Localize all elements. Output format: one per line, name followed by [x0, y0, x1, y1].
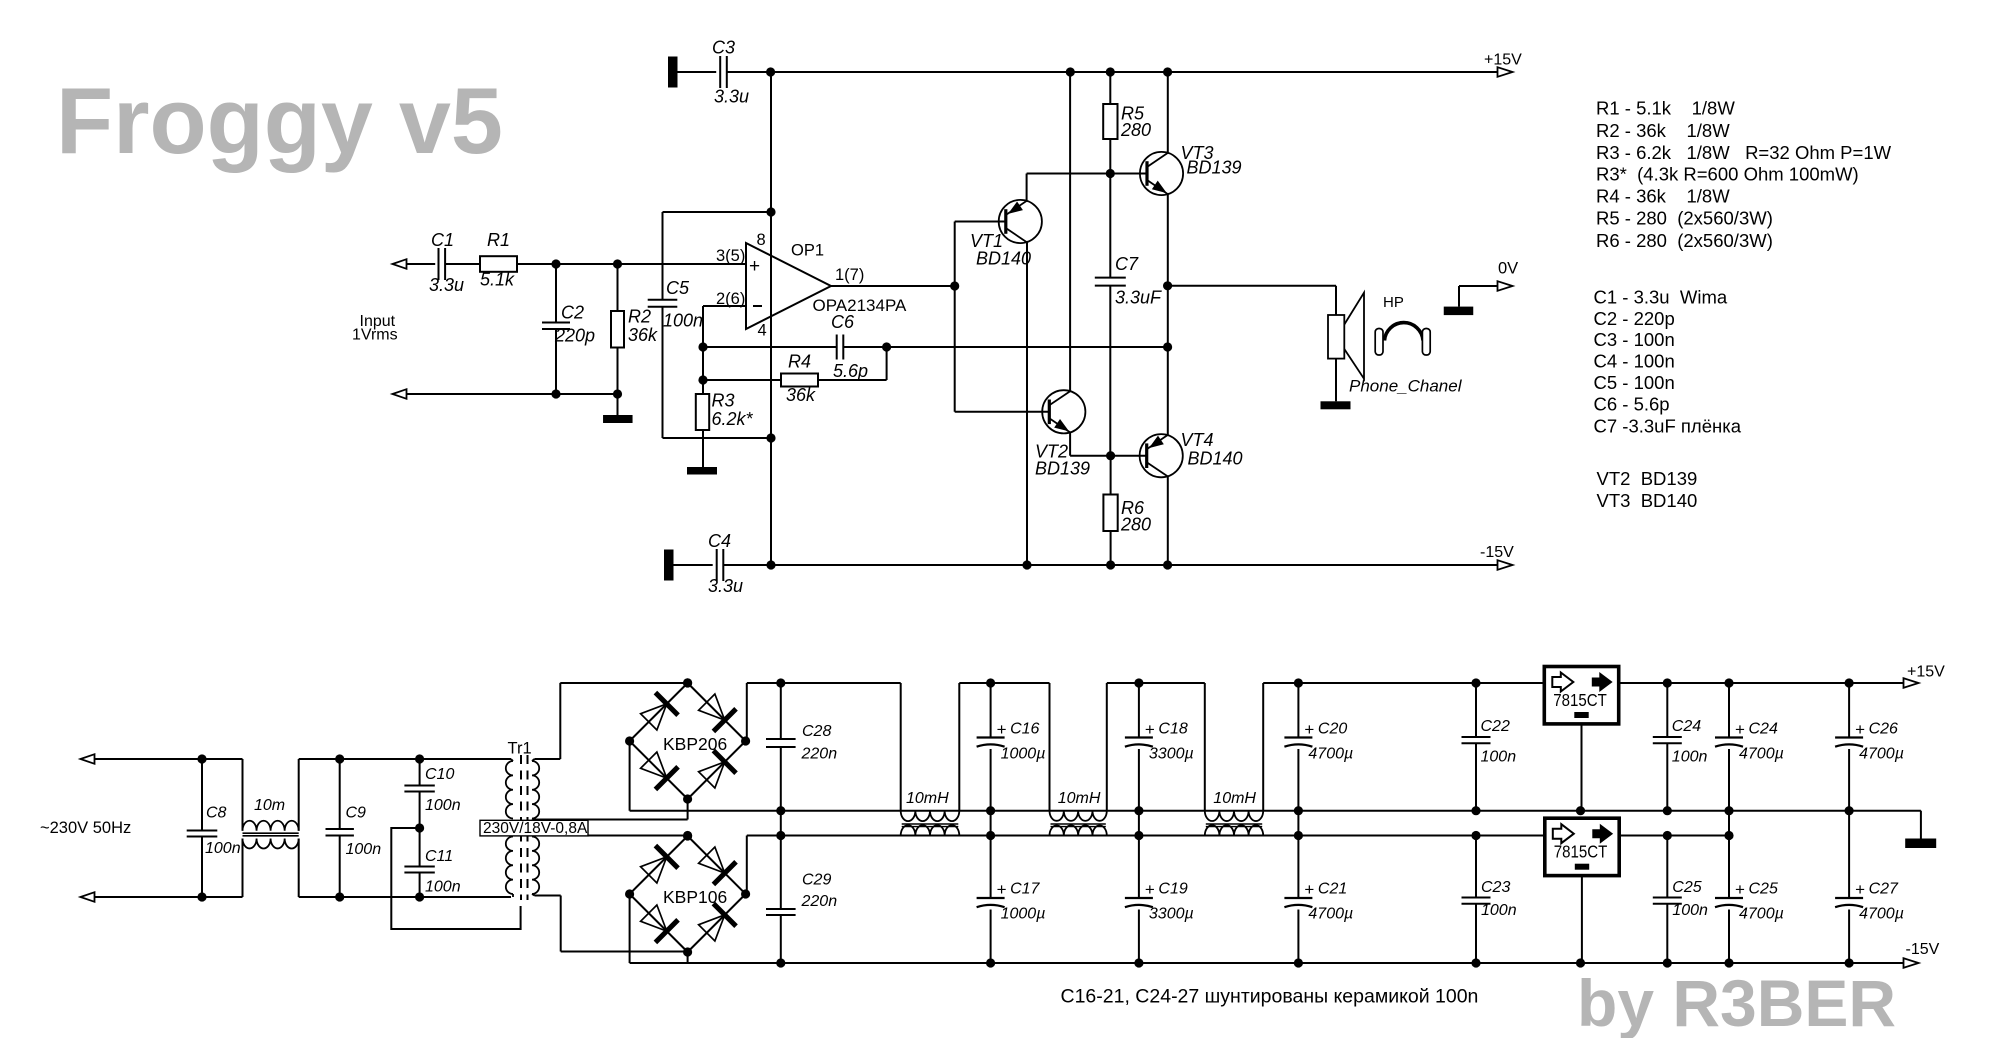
svg-text:100n: 100n [1672, 902, 1708, 919]
svg-text:C6: C6 [831, 312, 855, 332]
svg-text:10m: 10m [254, 797, 285, 814]
svg-text:C2: C2 [561, 303, 584, 323]
svg-text:100n: 100n [346, 841, 382, 858]
svg-text:C3 - 100n: C3 - 100n [1594, 329, 1675, 350]
svg-text:R1: R1 [487, 230, 510, 250]
svg-text:0V: 0V [1498, 260, 1518, 278]
svg-text:+: + [997, 880, 1007, 899]
svg-text:C9: C9 [346, 805, 367, 822]
svg-text:10mH: 10mH [1213, 790, 1256, 807]
svg-text:R1 - 5.1k 1/8W: R1 - 5.1k 1/8W [1596, 98, 1735, 119]
svg-text:C20: C20 [1318, 721, 1347, 738]
svg-text:Froggy v5: Froggy v5 [56, 68, 503, 173]
svg-text:C16-21, C24-27 шунтированы кер: C16-21, C24-27 шунтированы керамикой 100… [1061, 986, 1479, 1008]
svg-text:C22: C22 [1481, 718, 1510, 735]
svg-text:C24: C24 [1749, 721, 1778, 738]
svg-text:C16: C16 [1010, 721, 1039, 738]
svg-text:VT3 BD140: VT3 BD140 [1597, 490, 1698, 511]
svg-text:C23: C23 [1481, 879, 1510, 896]
svg-text:+: + [1145, 720, 1155, 739]
svg-text:C21: C21 [1318, 881, 1347, 898]
svg-text:10mH: 10mH [906, 790, 949, 807]
svg-text:C3: C3 [712, 38, 735, 58]
svg-text:C8: C8 [206, 805, 227, 822]
svg-text:HP: HP [1383, 294, 1404, 311]
svg-text:C25: C25 [1672, 879, 1701, 896]
svg-text:C7: C7 [1115, 254, 1139, 274]
svg-text:by R3BER: by R3BER [1577, 966, 1896, 1038]
svg-text:C4 - 100n: C4 - 100n [1594, 350, 1675, 371]
svg-text:100n: 100n [205, 840, 241, 857]
svg-text:BD140: BD140 [1188, 449, 1243, 469]
svg-text:3300µ: 3300µ [1149, 906, 1194, 923]
svg-text:OP1: OP1 [791, 242, 824, 260]
svg-text:C5: C5 [666, 278, 690, 298]
svg-text:R3* (4.3k R=600 Ohm 100mW): R3* (4.3k R=600 Ohm 100mW) [1596, 164, 1859, 185]
svg-text:R4 - 36k 1/8W: R4 - 36k 1/8W [1596, 185, 1730, 206]
svg-text:C24: C24 [1672, 718, 1701, 735]
svg-text:1Vrms: 1Vrms [352, 327, 398, 344]
svg-text:R4: R4 [788, 352, 811, 372]
svg-text:1000µ: 1000µ [1001, 746, 1046, 763]
svg-text:C1 - 3.3u Wima: C1 - 3.3u Wima [1594, 287, 1728, 308]
svg-text:4700µ: 4700µ [1739, 906, 1784, 923]
svg-text:36k: 36k [628, 325, 658, 345]
svg-text:100n: 100n [663, 311, 703, 331]
svg-text:3300µ: 3300µ [1149, 746, 1194, 763]
svg-text:6.2k*: 6.2k* [712, 409, 754, 429]
svg-text:5.1k: 5.1k [480, 270, 515, 290]
svg-text:+15V: +15V [1907, 664, 1945, 681]
svg-text:100n: 100n [1481, 749, 1517, 766]
svg-text:220p: 220p [554, 326, 595, 346]
svg-text:+: + [1304, 720, 1314, 739]
svg-text:C1: C1 [431, 230, 454, 250]
svg-text:OPA2134PA: OPA2134PA [813, 296, 908, 315]
svg-text:7815CT: 7815CT [1553, 690, 1607, 710]
svg-text:4700µ: 4700µ [1859, 906, 1904, 923]
svg-text:+: + [749, 256, 760, 277]
svg-text:3.3u: 3.3u [714, 87, 749, 107]
svg-text:+: + [1145, 880, 1155, 899]
svg-text:220n: 220n [801, 893, 838, 910]
svg-text:1(7): 1(7) [835, 266, 864, 284]
svg-text:Tr1: Tr1 [508, 740, 532, 758]
svg-text:+: + [1855, 720, 1865, 739]
svg-text:100n: 100n [1481, 902, 1517, 919]
svg-text:3.3u: 3.3u [708, 576, 743, 596]
svg-text:230V/18V-0,8A: 230V/18V-0,8A [483, 820, 588, 837]
svg-text:8: 8 [757, 231, 766, 249]
svg-text:3(5): 3(5) [716, 247, 745, 265]
svg-text:3.3uF: 3.3uF [1115, 288, 1162, 308]
svg-text:280: 280 [1120, 515, 1151, 535]
svg-text:C27: C27 [1869, 881, 1899, 898]
svg-text:C28: C28 [802, 723, 831, 740]
svg-text:C18: C18 [1158, 721, 1187, 738]
svg-text:+15V: +15V [1484, 52, 1522, 69]
svg-text:+: + [1735, 880, 1745, 899]
svg-text:KBP106: KBP106 [663, 887, 727, 907]
svg-text:C4: C4 [708, 531, 731, 551]
svg-text:C6 - 5.6p: C6 - 5.6p [1594, 394, 1670, 415]
svg-text:Phone_Chanel: Phone_Chanel [1349, 377, 1463, 396]
svg-text:C26: C26 [1869, 721, 1898, 738]
svg-text:100n: 100n [1672, 749, 1708, 766]
svg-text:C29: C29 [802, 872, 831, 889]
svg-text:-15V: -15V [1906, 941, 1940, 958]
svg-text:5.6p: 5.6p [833, 361, 868, 381]
svg-text:KBP206: KBP206 [663, 734, 727, 754]
svg-text:1000µ: 1000µ [1001, 906, 1046, 923]
svg-text:280: 280 [1120, 120, 1151, 140]
svg-text:+: + [997, 720, 1007, 739]
svg-text:7815CT: 7815CT [1554, 842, 1608, 862]
svg-text:C11: C11 [425, 848, 453, 865]
svg-text:+: + [1735, 720, 1745, 739]
svg-text:4700µ: 4700µ [1308, 746, 1353, 763]
svg-text:C10: C10 [425, 766, 454, 783]
svg-text:C5 - 100n: C5 - 100n [1594, 372, 1675, 393]
svg-text:C19: C19 [1158, 881, 1187, 898]
svg-text:R3 - 6.2k 1/8W R=32 Ohm P=: R3 - 6.2k 1/8W R=32 Ohm P=1W [1596, 142, 1892, 163]
svg-text:220n: 220n [801, 746, 838, 763]
svg-text:100n: 100n [425, 879, 461, 896]
svg-text:BD139: BD139 [1187, 158, 1242, 178]
svg-text:+: + [1855, 880, 1865, 899]
svg-text:100n: 100n [425, 797, 461, 814]
svg-text:36k: 36k [786, 385, 816, 405]
svg-text:4700µ: 4700µ [1308, 906, 1353, 923]
svg-text:R6 - 280 (2x560/3W): R6 - 280 (2x560/3W) [1596, 230, 1773, 251]
svg-text:+: + [1304, 880, 1314, 899]
svg-text:10mH: 10mH [1058, 790, 1101, 807]
svg-text:C25: C25 [1749, 881, 1778, 898]
svg-text:R2 - 36k 1/8W: R2 - 36k 1/8W [1596, 120, 1730, 141]
svg-text:~230V 50Hz: ~230V 50Hz [40, 819, 131, 837]
svg-text:C7 -3.3uF плёнка: C7 -3.3uF плёнка [1594, 415, 1742, 436]
svg-text:C2 - 220p: C2 - 220p [1594, 308, 1675, 329]
svg-text:4700µ: 4700µ [1859, 746, 1904, 763]
svg-text:BD140: BD140 [976, 249, 1031, 269]
svg-text:-15V: -15V [1480, 544, 1514, 561]
svg-text:3.3u: 3.3u [429, 275, 464, 295]
svg-text:VT2 BD139: VT2 BD139 [1597, 468, 1698, 489]
svg-text:R5 - 280 (2x560/3W): R5 - 280 (2x560/3W) [1596, 208, 1773, 229]
svg-text:BD139: BD139 [1035, 459, 1090, 479]
svg-text:VT4: VT4 [1181, 430, 1214, 450]
svg-text:R3: R3 [712, 391, 735, 411]
svg-text:C17: C17 [1010, 881, 1040, 898]
svg-text:4: 4 [758, 322, 767, 340]
svg-text:R2: R2 [628, 307, 651, 327]
svg-text:4700µ: 4700µ [1739, 746, 1784, 763]
